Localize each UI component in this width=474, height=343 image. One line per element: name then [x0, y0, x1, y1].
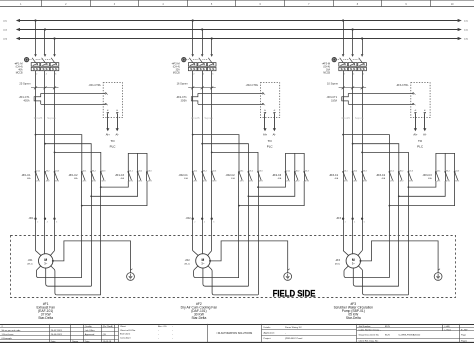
wire: star link 2 circuit 1 — [90, 181, 137, 197]
svg-text:1/L1: 1/L1 — [36, 171, 40, 173]
svg-text:4/T2: 4/T2 — [249, 181, 253, 183]
svg-text:6: 6 — [363, 73, 364, 75]
svg-text:AI-: AI- — [115, 133, 119, 137]
wire: motor PE to ground circuit 3 — [360, 241, 441, 273]
wire: bus L1 tap, circuit 3 — [342, 19, 344, 21]
svg-text:6: 6 — [55, 73, 56, 75]
svg-text:8125: 8125 — [385, 326, 391, 328]
svg-text:1/L1: 1/L1 — [194, 171, 198, 173]
svg-text:Client ref Fil No.: Client ref Fil No. — [120, 329, 136, 332]
svg-text:MCCB: MCCB — [16, 72, 23, 74]
svg-text:End Client: End Client — [120, 333, 130, 336]
svg-text:3~: 3~ — [44, 262, 48, 266]
wire: motor U2 wrap circuit 2 — [194, 266, 239, 278]
svg-text:MCCB: MCCB — [173, 72, 180, 74]
contactor -#F2-C2 — [238, 171, 262, 183]
wire: motor V2 wrap circuit 1 — [46, 268, 91, 286]
svg-text:16A: 16A — [326, 68, 331, 71]
control box #F3-CTRL — [411, 83, 430, 118]
wire: star link 1 circuit 3 — [408, 181, 436, 188]
svg-text:3~: 3~ — [352, 262, 356, 266]
svg-text:Quality: Quality — [85, 325, 93, 328]
contactor -#F3-C3 — [435, 171, 459, 183]
svg-text:Sqmm: Sqmm — [355, 116, 364, 120]
svg-text:6/T3: 6/T3 — [259, 181, 263, 183]
wire: C1 to overload circuit 2 — [193, 181, 212, 224]
svg-text:4/T2: 4/T2 — [138, 181, 142, 183]
wire: CT secondary to #F3-CTRL — [348, 93, 415, 105]
svg-text:3Cx25: 3Cx25 — [34, 116, 43, 120]
label: motor 2 description — [181, 302, 218, 320]
contactor -#F1-C3 — [127, 171, 151, 183]
wire: winding return 3 circuit 3 — [408, 181, 410, 295]
svg-text:(M-1): (M-1) — [27, 264, 32, 266]
svg-text:-#F1-CTRL: -#F1-CTRL — [88, 84, 101, 87]
svg-text:24-07-2021: 24-07-2021 — [51, 330, 63, 332]
svg-text:(CH-4): (CH-4) — [16, 66, 23, 68]
svg-text:AI-: AI- — [273, 133, 277, 137]
svg-text:PLC: PLC — [110, 144, 117, 148]
svg-text:(- Rev): (- Rev) — [445, 329, 452, 331]
wire: bus L3 tap, circuit 1 — [53, 37, 55, 39]
svg-text:FIELD SIDE: FIELD SIDE — [273, 288, 316, 298]
svg-text:4: 4 — [353, 73, 354, 75]
svg-text:Cable Number Desig: -: Cable Number Desig: - — [359, 328, 382, 331]
wire: star link 1 circuit 2 — [257, 181, 285, 188]
label: motor #F1 — [27, 259, 33, 265]
terminals AI in #F3-CTRL — [414, 109, 426, 114]
svg-text:-#F1-C1: -#F1-C1 — [21, 174, 31, 177]
wire: star link 3 circuit 3 — [389, 181, 455, 207]
ground: circuit 1 — [127, 273, 135, 281]
svg-text:-#F2-C3: -#F2-C3 — [272, 174, 282, 177]
svg-text:2: 2 — [37, 221, 38, 223]
label: -#F3-C1 — [329, 174, 339, 180]
control box #F1-CTRL — [103, 83, 122, 118]
svg-text:3/L2: 3/L2 — [296, 171, 300, 173]
label: breaker #F1-M — [14, 61, 23, 74]
wire: CT secondary to #F2-CTRL — [198, 93, 265, 105]
svg-text:/ (+WBS-PW20A05112: / (+WBS-PW20A05112 — [398, 333, 421, 336]
svg-text:-#F3-C3: -#F3-C3 — [422, 174, 432, 177]
title block: job number section — [357, 324, 474, 343]
title block: client section — [120, 324, 208, 343]
svg-text:30/5A: 30/5A — [181, 100, 187, 103]
wire: bus L3 tap, circuit 2 — [211, 37, 213, 39]
svg-text:Rev - 0%: Rev - 0% — [158, 326, 167, 328]
wire: winding return 3 circuit 1 — [100, 181, 102, 295]
svg-text:(M-1): (M-1) — [335, 264, 340, 266]
svg-text:(Rs 29mA): (Rs 29mA) — [103, 325, 113, 328]
svg-text:-#F2-CT1: -#F2-CT1 — [176, 96, 187, 99]
terminals AI in #F2-CTRL — [264, 109, 276, 114]
svg-text:6: 6 — [364, 221, 365, 223]
svg-text:(- A3): (- A3) — [445, 325, 450, 328]
wire: delta feed L3 circuit 3 — [361, 152, 408, 172]
contactor -#F3-C1 — [342, 171, 366, 183]
label: cable tags (faint) circuit 2 — [191, 116, 214, 120]
title block: details section — [262, 324, 357, 343]
svg-text:Application:: Application: — [264, 331, 276, 334]
bus line L2 — [3, 28, 468, 32]
wire: star link 2 circuit 2 — [248, 181, 295, 197]
svg-text:2/T1: 2/T1 — [194, 181, 198, 183]
svg-text:3/L2: 3/L2 — [446, 171, 450, 173]
svg-text:4/T2: 4/T2 — [203, 181, 207, 183]
svg-text:1/L1: 1/L1 — [240, 171, 244, 173]
svg-text:32A: 32A — [176, 68, 181, 71]
svg-text:2/T1: 2/T1 — [240, 181, 244, 183]
wire: motor U2 wrap circuit 1 — [36, 266, 81, 278]
svg-text:-#F2-C1: -#F2-C1 — [179, 174, 189, 177]
svg-text:6/T3: 6/T3 — [305, 181, 309, 183]
wire: delta feed L3 circuit 1 — [54, 152, 101, 172]
svg-text:I M AUTOMATION SOLUTIONS: I M AUTOMATION SOLUTIONS — [217, 332, 253, 335]
svg-text:40/5A: 40/5A — [23, 100, 29, 103]
label: cable 16 Sqmm — [177, 82, 216, 90]
svg-text:6: 6 — [56, 221, 57, 223]
svg-text:6/T3: 6/T3 — [409, 181, 413, 183]
svg-text:4: 4 — [204, 221, 205, 223]
title block: company cell — [217, 324, 262, 343]
terminals AI in #F1-CTRL — [107, 109, 119, 114]
label: motor 3 description — [334, 302, 374, 320]
wire: star link 2 circuit 3 — [398, 181, 445, 197]
svg-text:(L3): (L3) — [3, 39, 7, 41]
field side dashed box — [11, 236, 456, 298]
svg-text:-#F1-M: -#F1-M — [14, 61, 22, 65]
svg-text:Details:: Details: — [264, 326, 272, 329]
label: CT #F2-CT1 — [176, 96, 187, 102]
wire: phase verticals circuit 3 — [344, 75, 363, 172]
wire: motor feeds circuit 3 — [343, 224, 362, 256]
svg-text:4/T2: 4/T2 — [400, 181, 404, 183]
CT #F1-CT1 — [34, 93, 41, 104]
overload relay #F2 — [192, 218, 215, 224]
svg-text:-#F3-C1: -#F3-C1 — [329, 174, 339, 177]
svg-text:(PRD-MCC Panel: (PRD-MCC Panel — [285, 338, 303, 340]
svg-text:-#F1-C2: -#F1-C2 — [68, 174, 78, 177]
wire: winding return 3 circuit 2 — [258, 181, 260, 295]
wire: bus L2 tap, circuit 2 — [201, 28, 203, 30]
svg-text:Page: Page — [461, 334, 467, 336]
wire: winding return 1 circuit 3 — [389, 181, 391, 278]
svg-text:10/5A: 10/5A — [331, 100, 337, 103]
wire: delta feed L2 circuit 3 — [352, 143, 399, 172]
label: cable 25 Sqmm — [19, 82, 58, 90]
svg-text:(M-1): (M-1) — [184, 264, 189, 266]
wire: motor feeds circuit 1 — [36, 224, 55, 256]
svg-text:1 First Issue: 1 First Issue — [2, 333, 15, 336]
svg-text:Lab Office: Lab Office — [85, 330, 96, 332]
svg-text:6/T3: 6/T3 — [455, 181, 459, 183]
border frame — [0, 1, 474, 7]
svg-text:1/L1: 1/L1 — [83, 171, 87, 173]
svg-text:1/L1: 1/L1 — [390, 171, 394, 173]
svg-text:3/L2: 3/L2 — [92, 171, 96, 173]
svg-text:6: 6 — [213, 221, 214, 223]
svg-text:3/L2: 3/L2 — [138, 171, 142, 173]
svg-text:2/T1: 2/T1 — [344, 181, 348, 183]
svg-text:2/T1: 2/T1 — [390, 181, 394, 183]
svg-text:-#F2-C2: -#F2-C2 — [226, 174, 236, 177]
svg-text:(L2): (L2) — [3, 30, 7, 32]
svg-text:-#F1: -#F1 — [28, 259, 34, 262]
svg-text:(L1): (L1) — [3, 21, 7, 23]
svg-text:3/L2: 3/L2 — [203, 171, 207, 173]
svg-text:6/T3: 6/T3 — [213, 181, 217, 183]
wire: AI+ signal arrow circuit 2 — [264, 114, 266, 129]
svg-text:-#F3-C2: -#F3-C2 — [376, 174, 386, 177]
svg-text:-#F2-M: -#F2-M — [171, 61, 179, 65]
svg-text:3/L2: 3/L2 — [46, 171, 50, 173]
svg-text:-#F1-C3: -#F1-C3 — [115, 174, 125, 177]
svg-text:Project:: Project: — [264, 337, 272, 340]
svg-text:-#F3-CT1: -#F3-CT1 — [326, 96, 337, 99]
contactor -#F2-C3 — [285, 171, 309, 183]
contactor -#F3-C2 — [389, 171, 413, 183]
svg-text:-#F3: -#F3 — [336, 217, 342, 220]
svg-text:Star-Delta: Star-Delta — [38, 316, 53, 320]
svg-text:8125: 8125 — [385, 334, 391, 336]
label: breaker #F3-M — [322, 61, 331, 74]
wire: winding return 1 circuit 2 — [238, 181, 240, 278]
svg-text:4: 4 — [203, 73, 204, 75]
svg-text:5/L3: 5/L3 — [148, 171, 152, 173]
wire: delta feed L2 circuit 2 — [201, 143, 248, 172]
CT #F3-CT1 — [342, 93, 349, 104]
svg-text:Star-Delta: Star-Delta — [191, 316, 206, 320]
svg-text:(L2): (L2) — [464, 30, 468, 32]
wire: star link 3 circuit 2 — [238, 181, 304, 207]
label: motor #F2 — [184, 259, 190, 265]
wire: delta feed L2 circuit 1 — [44, 143, 91, 172]
svg-text:(CH-4): (CH-4) — [173, 66, 180, 68]
contactor -#F1-C1 — [35, 171, 59, 183]
svg-text:2/T1: 2/T1 — [36, 181, 40, 183]
motor #F3 (M, 3~) — [346, 254, 360, 268]
control box #F2-CTRL — [260, 83, 279, 118]
wire: star link 3 circuit 1 — [81, 181, 147, 207]
overload relay #F1 — [34, 218, 57, 224]
svg-text:5/L3: 5/L3 — [55, 171, 59, 173]
wire: star link 1 circuit 1 — [100, 181, 128, 188]
svg-text:TO: TO — [110, 139, 115, 143]
wire: phase verticals circuit 1 — [36, 75, 55, 172]
label: -#F1-C3 — [115, 174, 125, 180]
wire: bus L3 tap, circuit 3 — [361, 37, 363, 39]
label: motor #F3 — [335, 259, 341, 265]
svg-text:4/T2: 4/T2 — [446, 181, 450, 183]
wire: AI- signal arrow circuit 3 — [424, 114, 426, 129]
wire: bus L2 tap, circuit 3 — [352, 28, 354, 30]
wire: delta feed L1 circuit 3 — [342, 134, 389, 172]
svg-text:6/T3: 6/T3 — [363, 181, 367, 183]
svg-text:AI+: AI+ — [263, 133, 268, 137]
svg-text:Sqmm: Sqmm — [47, 116, 56, 120]
wire: AI+ signal arrow circuit 3 — [415, 114, 417, 129]
wire: bus L2 tap, circuit 1 — [44, 28, 46, 30]
svg-text:2/T1: 2/T1 — [286, 181, 290, 183]
svg-text:Consultant: Consultant — [120, 336, 131, 339]
contactor -#F1-C2 — [81, 171, 105, 183]
svg-text:Swapt Document No.: Swapt Document No. — [359, 333, 380, 336]
svg-text:Client: Client — [120, 325, 126, 328]
svg-text:(CH-4): (CH-4) — [323, 66, 330, 68]
svg-text:5/L3: 5/L3 — [305, 171, 309, 173]
svg-text:4/T2: 4/T2 — [353, 181, 357, 183]
label: AI+ / AI- TO PLC circuit 3 — [413, 133, 426, 149]
svg-text:6: 6 — [212, 73, 213, 75]
label: AI+ / AI- TO PLC circuit 2 — [263, 133, 276, 149]
svg-text:PLC: PLC — [267, 144, 274, 148]
svg-text:PLC: PLC — [417, 144, 424, 148]
label: -#F1-C2 — [68, 174, 78, 180]
svg-text:4/T2: 4/T2 — [46, 181, 50, 183]
svg-text:-#F3-M: -#F3-M — [322, 61, 330, 65]
wire: C1 to overload circuit 3 — [344, 181, 363, 224]
svg-text:-#F2: -#F2 — [185, 259, 191, 262]
label: CT #F1-CT1 — [19, 96, 30, 102]
motor #F2 (M, 3~) — [196, 254, 210, 268]
svg-text:4: 4 — [46, 73, 47, 75]
wire: winding return 2 circuit 3 — [398, 181, 400, 286]
label: -#F2-C1 — [179, 174, 189, 180]
wire: star point bar #F3-C3 — [436, 153, 455, 172]
svg-text:5/L3: 5/L3 — [259, 171, 263, 173]
svg-text:2/T1: 2/T1 — [83, 181, 87, 183]
svg-text:-#F2-CTRL: -#F2-CTRL — [246, 84, 259, 87]
svg-text:1/L1: 1/L1 — [286, 171, 290, 173]
svg-text:Client Ref. Dwg. No:: Client Ref. Dwg. No: — [359, 340, 379, 343]
svg-text:Pages: Pages — [461, 341, 467, 343]
svg-text:6/T3: 6/T3 — [102, 181, 106, 183]
svg-text:2: 2 — [36, 73, 37, 75]
svg-text:TO: TO — [418, 139, 423, 143]
svg-text:5/L3: 5/L3 — [363, 171, 367, 173]
svg-text:2: 2 — [193, 73, 194, 75]
title block: outer lines — [0, 325, 474, 343]
svg-text:AI-: AI- — [423, 133, 427, 137]
svg-text:4/T2: 4/T2 — [296, 181, 300, 183]
svg-text:Job Number:: Job Number: — [359, 325, 372, 328]
wire: winding return 1 circuit 1 — [81, 181, 83, 278]
svg-text:3~: 3~ — [201, 262, 205, 266]
svg-text:4: 4 — [47, 221, 48, 223]
wire: motor W2 wrap circuit 3 — [358, 266, 408, 295]
wire: delta feed L3 circuit 2 — [211, 152, 258, 172]
svg-text:1/L1: 1/L1 — [437, 171, 441, 173]
wire: star point bar #F1-C3 — [128, 153, 147, 172]
svg-text:(L1): (L1) — [464, 21, 468, 23]
label: motor 1 description — [36, 302, 55, 320]
wire: motor feeds circuit 2 — [193, 224, 212, 256]
svg-text:-#F3: -#F3 — [335, 259, 341, 262]
svg-text:AI+: AI+ — [106, 133, 111, 137]
motor #F1 (M, 3~) — [39, 254, 53, 268]
svg-text:(L3): (L3) — [464, 39, 468, 41]
wire: AI+ signal arrow circuit 1 — [107, 114, 109, 129]
wire: motor PE to ground circuit 2 — [209, 241, 290, 273]
wire: CT secondary to #F1-CTRL — [41, 93, 108, 105]
label: -#F2-C3 — [272, 174, 282, 180]
svg-text:-#F2: -#F2 — [186, 217, 192, 220]
wire: bus L1 tap, circuit 1 — [34, 19, 36, 21]
wire: motor PE to ground circuit 1 — [52, 241, 132, 273]
wire: motor V2 wrap circuit 3 — [353, 268, 399, 286]
svg-text:3/L2: 3/L2 — [400, 171, 404, 173]
label: -#F2-C2 — [226, 174, 236, 180]
label: -#F1-C1 — [21, 174, 31, 180]
wire: motor V2 wrap circuit 2 — [203, 268, 249, 286]
svg-text:AI+: AI+ — [413, 133, 418, 137]
svg-text:B - MV: B - MV — [461, 329, 468, 331]
svg-text:24-06-2021: 24-06-2021 — [51, 334, 63, 336]
wire: phase verticals circuit 2 — [193, 75, 212, 172]
breaker #F3-M (MCCB) — [332, 58, 366, 76]
CT #F2-CT1 — [191, 93, 198, 104]
contactor -#F2-C1 — [192, 171, 216, 183]
svg-text:4/T2: 4/T2 — [92, 181, 96, 183]
overload relay #F3 — [342, 218, 365, 224]
svg-text:TO: TO — [268, 139, 273, 143]
breaker #F2-M (MCCB) — [182, 58, 216, 76]
breaker #F1-M (MCCB) — [25, 58, 59, 76]
svg-text:Sh as per unit code: Sh as per unit code — [2, 329, 22, 332]
svg-text:2: 2 — [345, 221, 346, 223]
svg-text:10 Sqmm: 10 Sqmm — [327, 82, 338, 86]
svg-text:-#F1-CT1: -#F1-CT1 — [19, 96, 30, 99]
svg-text:-#F3-CTRL: -#F3-CTRL — [396, 84, 409, 87]
label: cable tags (faint) circuit 1 — [34, 116, 57, 120]
svg-text:46A: 46A — [18, 68, 23, 71]
svg-text:0 Example: 0 Example — [2, 338, 13, 340]
svg-text:MCCB: MCCB — [323, 72, 330, 74]
svg-text:5/L3: 5/L3 — [102, 171, 106, 173]
svg-text:4: 4 — [354, 221, 355, 223]
wire: winding return 2 circuit 2 — [248, 181, 250, 286]
svg-text:1/L1: 1/L1 — [129, 171, 133, 173]
label: CT #F3-CT1 — [326, 96, 337, 102]
label: AI+ / AI- TO PLC circuit 1 — [106, 133, 119, 149]
svg-text:2/T1: 2/T1 — [129, 181, 133, 183]
svg-text:2: 2 — [344, 73, 345, 75]
wire: winding return 2 circuit 1 — [91, 181, 93, 286]
label: breaker #F2-M — [171, 61, 180, 74]
svg-text:2: 2 — [194, 221, 195, 223]
svg-text:Star-Delta: Star-Delta — [346, 316, 361, 320]
ground: circuit 3 — [434, 273, 442, 281]
wire: delta feed L1 circuit 1 — [35, 134, 82, 172]
wire: bus L1 tap, circuit 2 — [192, 19, 194, 21]
svg-text:25 Sqmm: 25 Sqmm — [19, 82, 30, 86]
svg-text:5/L3: 5/L3 — [409, 171, 413, 173]
svg-text:3Cx25: 3Cx25 — [341, 116, 350, 120]
bus line L1 — [3, 19, 468, 23]
svg-text:3/L2: 3/L2 — [249, 171, 253, 173]
ground: circuit 2 — [284, 273, 292, 281]
svg-text:5/L3: 5/L3 — [455, 171, 459, 173]
svg-text:16 Sqmm: 16 Sqmm — [177, 82, 188, 86]
label: -#F3-C3 — [422, 174, 432, 180]
label: cable 10 Sqmm — [327, 82, 366, 90]
svg-text:3Cx25: 3Cx25 — [191, 116, 200, 120]
svg-text:5/L3: 5/L3 — [213, 171, 217, 173]
bus line L3 — [3, 37, 468, 41]
wire: AI- signal arrow circuit 1 — [117, 114, 119, 129]
svg-text:6/T3: 6/T3 — [55, 181, 59, 183]
svg-text:Approved: Approved — [85, 333, 95, 336]
